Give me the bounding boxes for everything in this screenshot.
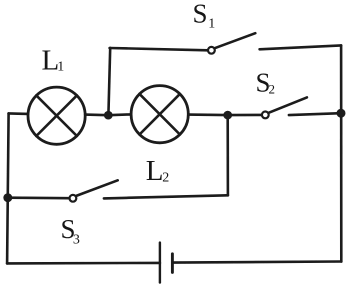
battery negative plate (short): [171, 254, 174, 273]
wire: node J1 to lamp L2: [108, 113, 131, 116]
svg-text:S: S: [193, 0, 208, 28]
node J2 junction dot: [223, 111, 232, 120]
svg-text:1: 1: [57, 60, 64, 75]
wire: lamp L1 to node J1: [85, 113, 108, 116]
switch S1 pivot circle: [208, 47, 215, 54]
node J3 junction dot: [337, 109, 346, 118]
svg-text:1: 1: [208, 17, 215, 32]
wire: riser from node J2 down to S3 branch: [226, 115, 229, 195]
lamp L2 cross stroke 2: [140, 94, 180, 135]
label S2: [256, 67, 276, 97]
wire: top rail left segment to switch S1 pivot: [110, 48, 208, 50]
lamp L1 circle: [28, 87, 85, 144]
switch S3 blade: [76, 180, 118, 196]
lamp L1 cross stroke 1: [36, 95, 77, 136]
wire: S3 branch bottom run (S3 contact): [104, 195, 228, 198]
wire: bottom rail left segment from battery: [7, 262, 160, 265]
label L2: [146, 155, 169, 187]
svg-text:2: 2: [162, 171, 169, 186]
lamp L1 cross stroke 2: [36, 95, 77, 136]
lamp L2 circle: [131, 86, 188, 143]
wire: right vertical rail: [340, 45, 343, 261]
node J4 junction dot: [3, 193, 12, 202]
battery positive plate (long): [159, 243, 161, 283]
svg-text:3: 3: [73, 232, 80, 247]
label L1: [42, 45, 65, 77]
switch S2 blade: [269, 97, 307, 112]
label S1: [193, 0, 216, 32]
wire: lamp L2 to node J2: [188, 113, 227, 116]
switch S3 pivot circle: [70, 195, 77, 202]
wire: bottom rail right segment to battery: [172, 262, 341, 263]
svg-text:L: L: [146, 155, 164, 187]
wire: node J2 to switch S2 pivot: [228, 114, 262, 117]
switch S1 blade: [215, 33, 256, 48]
switch S2 pivot circle: [262, 112, 269, 119]
node J1 junction dot: [104, 111, 113, 120]
wire: S2 contact to node J3 on right rail: [289, 113, 341, 115]
svg-text:2: 2: [269, 82, 276, 97]
wire: left lead into lamp L1: [9, 112, 28, 115]
lamp L2 cross stroke 1: [140, 94, 180, 135]
wire: node J4 to switch S3 pivot: [8, 196, 70, 199]
wire: riser from node J1 up to top rail: [108, 48, 110, 115]
wire: top rail right segment from S1 contact to top-right corner: [260, 45, 342, 49]
wire: left vertical rail: [7, 113, 9, 263]
label S3: [61, 214, 80, 247]
